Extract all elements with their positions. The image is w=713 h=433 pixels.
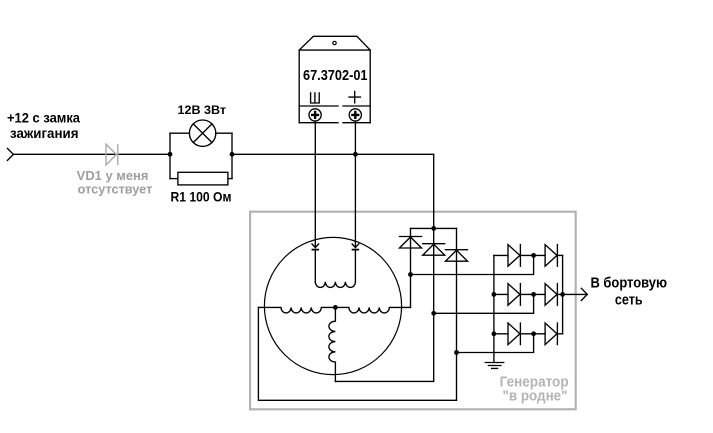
- regulator body: [299, 50, 370, 123]
- wire resistor left: [170, 178, 178, 180]
- svg-text:В бортовую: В бортовую: [591, 275, 668, 292]
- svg-text:R1 100 Ом: R1 100 Ом: [171, 188, 232, 204]
- lamp left rail: [169, 133, 171, 178]
- diode VD3 (trio middle): [423, 243, 445, 245]
- wire phase A feed to bridge row1: [411, 255, 534, 274]
- wire input to lamp junction: [13, 153, 170, 155]
- diode VD7 (row2 left): [508, 284, 520, 306]
- node input arrow: [7, 148, 13, 160]
- wire Sh terminal down to brush: [314, 121, 316, 248]
- rotor field winding L1: [315, 282, 355, 288]
- diode VD8 (row2 right): [545, 284, 557, 306]
- node bridge left row2: [492, 292, 497, 297]
- screw terminal plus: [349, 109, 361, 121]
- diode VD4 (trio right): [446, 249, 468, 251]
- svg-text:зажигания: зажигания: [10, 125, 79, 141]
- wire trio middle column: [433, 228, 435, 381]
- node bridge mid row3: [531, 331, 536, 336]
- screw terminal Sh: [309, 109, 321, 121]
- node bridge left row3: [492, 331, 497, 336]
- lamp HL1 12V 3W: [189, 120, 215, 146]
- resistor R1 100 Ohm: [178, 172, 228, 185]
- output arrow: [581, 288, 587, 300]
- node trio top junction: [431, 226, 436, 231]
- terminal symbol Sh: [311, 93, 320, 103]
- wire lamp junction to corner down to diode trio: [232, 154, 434, 228]
- wire brush to rotor winding left: [314, 250, 316, 282]
- node phase B junction: [408, 272, 413, 277]
- diode VD1 (absent, grey): [106, 144, 118, 165]
- wire phase B end up to trio left column: [410, 228, 412, 307]
- wire phase A' feed to bridge row3: [457, 334, 534, 353]
- node plus wire junction: [353, 152, 358, 157]
- node phase A junction: [454, 350, 459, 355]
- svg-text:сеть: сеть: [615, 292, 643, 309]
- svg-text:отсутствует: отсутствует: [78, 183, 153, 197]
- bridge row2 wires: [494, 293, 563, 295]
- wire trio top bus: [411, 227, 457, 229]
- node output junction: [560, 292, 565, 297]
- lamp right rail: [231, 133, 233, 178]
- svg-text:VD1 у меня: VD1 у меня: [77, 169, 149, 183]
- node bridge mid row2: [531, 292, 536, 297]
- bridge row3 wires: [494, 333, 563, 335]
- diode VD6 (row1 right): [545, 245, 557, 267]
- brush arrow left: [312, 244, 319, 248]
- wire trio right column: [456, 228, 458, 400]
- svg-text:67.3702-01: 67.3702-01: [303, 67, 368, 84]
- wire resistor right: [228, 178, 232, 180]
- svg-text:+12 с замка: +12 с замка: [7, 109, 80, 125]
- ground: [485, 363, 503, 369]
- brush bar right: [353, 249, 359, 251]
- regulator terminal strip line: [299, 105, 370, 107]
- regulator mounting hole: [333, 41, 336, 44]
- node bridge mid row1: [531, 253, 536, 258]
- diode VD5 (row1 left): [508, 245, 520, 267]
- diode VD9 (row3 left): [508, 323, 520, 345]
- regulator U1 67.3702-01 cap: [299, 36, 370, 50]
- wire output to onboard net: [563, 293, 588, 295]
- stator winding phase A (middle left): [258, 307, 335, 313]
- terminal symbol plus: [349, 91, 360, 102]
- node star point: [333, 305, 338, 310]
- brush arrow right: [352, 244, 359, 248]
- svg-text:"в родне": "в родне": [503, 388, 568, 405]
- wire phase C bottom to trio middle column: [335, 380, 433, 382]
- node lamp left junction: [168, 152, 173, 157]
- stator circle: [264, 237, 401, 374]
- generator enclosure (grey box): [250, 212, 576, 410]
- node phase C junction: [431, 311, 436, 316]
- wire brush to rotor winding right: [354, 250, 356, 282]
- wire lamp top left: [170, 132, 189, 134]
- diode VD2 (trio left): [400, 236, 422, 238]
- wire lamp top right: [216, 132, 232, 134]
- screw terminal crosses: [311, 111, 359, 119]
- bridge left column: [493, 255, 495, 362]
- diode VD10 (row3 right): [545, 323, 557, 345]
- wire phase C feed to bridge row2: [434, 294, 534, 313]
- stator winding phase B (middle right): [335, 307, 410, 313]
- node lamp right junction: [230, 152, 235, 157]
- bridge row1 wires: [494, 254, 563, 256]
- brush bar left: [312, 249, 318, 251]
- bridge right column: [562, 255, 564, 333]
- svg-text:12В 3Вт: 12В 3Вт: [178, 105, 227, 117]
- wire plus terminal down to brush: [354, 121, 356, 248]
- wire phase A left end loop to bottom: [258, 307, 456, 400]
- stator winding phase C (vertical): [329, 307, 336, 381]
